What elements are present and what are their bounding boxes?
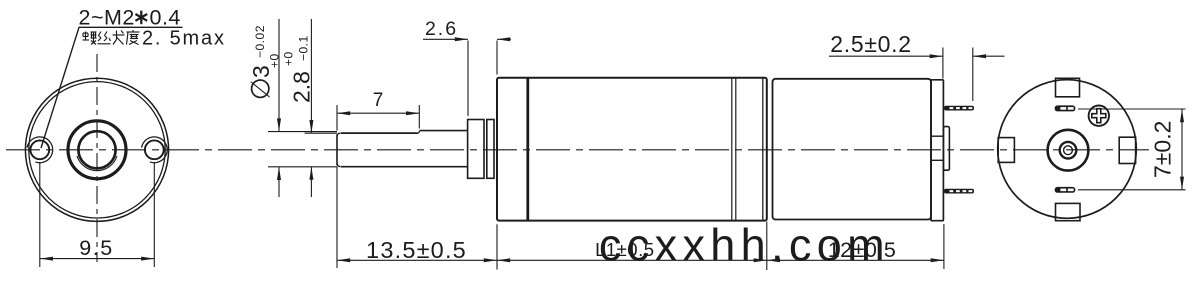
svg-text:0.4: 0.4 — [150, 6, 181, 30]
svg-text:∅: ∅ — [246, 77, 276, 100]
svg-text:7±0.2: 7±0.2 — [1150, 121, 1176, 178]
svg-text:2.8: 2.8 — [289, 71, 315, 103]
svg-text:2.5±0.2: 2.5±0.2 — [830, 31, 911, 57]
svg-text:ccxxhh.com: ccxxhh.com — [599, 219, 890, 270]
svg-text:7: 7 — [373, 90, 384, 111]
svg-text:2~M2: 2~M2 — [79, 6, 135, 30]
svg-text:9.5: 9.5 — [79, 236, 113, 260]
svg-text:−0.02: −0.02 — [253, 25, 267, 58]
svg-text:+0: +0 — [268, 53, 282, 68]
svg-text:−0.1: −0.1 — [297, 35, 311, 61]
svg-text:2.6: 2.6 — [425, 18, 458, 40]
svg-text:13.5±0.5: 13.5±0.5 — [366, 237, 467, 263]
svg-text:+0: +0 — [282, 51, 296, 66]
svg-text:2. 5max: 2. 5max — [142, 27, 226, 49]
